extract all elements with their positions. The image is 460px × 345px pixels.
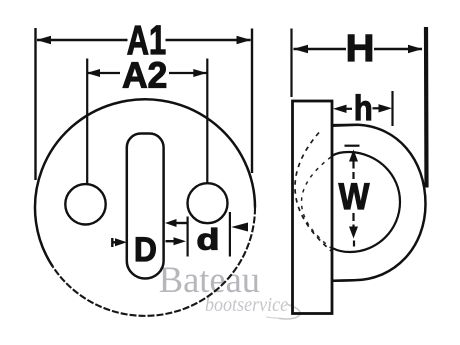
D right arrow (tip at slot right edge, tail to d ext line) (175, 222, 188, 224)
plate front view: outer circle bottom arc (scan-dashed) (53, 208, 255, 316)
left hole (65, 184, 105, 224)
svg-text:H: H (346, 28, 375, 70)
A1 right arrow (237, 36, 252, 45)
H left extension line (290, 29, 292, 98)
W dimension stem lower (dash) (352, 213, 354, 227)
A1 left arrow (37, 36, 52, 45)
eye inner circle arc (333, 152, 401, 252)
D left arrow (112, 241, 116, 243)
svg-text:D: D (134, 230, 157, 268)
slot (stadium) (127, 134, 164, 279)
H right extension line (424, 27, 429, 188)
A2 right extension line (206, 59, 208, 184)
d right extension line (229, 212, 231, 257)
hidden outer ring arc (dashed, behind plate) (295, 133, 333, 253)
H right arrow (408, 45, 423, 54)
W top arrow (pointing up) (349, 150, 358, 162)
A2 dimension line (87, 72, 120, 74)
A1 right extension line (251, 29, 253, 174)
rod top edge line (plate to ring) (331, 124, 358, 126)
H left arrow (293, 45, 308, 54)
rod bottom edge line (plate to ring) (331, 279, 354, 282)
watermark swoosh (278, 305, 300, 319)
svg-text:h: h (354, 88, 373, 127)
svg-text:W: W (339, 176, 371, 218)
h left arrow (tip at plate edge) (345, 108, 352, 110)
side view plate rectangle (293, 101, 333, 314)
d right arrow (outside, pointing left) (231, 223, 248, 232)
h right arrow (tip at ext line) (373, 107, 380, 109)
watermark swoosh tail (266, 317, 279, 318)
W top tick (345, 145, 360, 147)
A2 right arrow (193, 69, 207, 77)
right hole (188, 183, 228, 223)
H dimension line (294, 48, 347, 50)
hidden inner ring arc (dashed, behind plate) (302, 157, 332, 248)
W bottom arrow (pointing down) (349, 227, 358, 239)
A1 left extension line (34, 28, 36, 180)
A2 left extension line (86, 59, 88, 185)
A1 dimension line (37, 39, 128, 41)
svg-text:bootservice: bootservice (205, 294, 289, 316)
eye outer ring outline (332, 125, 426, 281)
h right extension line (391, 91, 393, 126)
D left arrow tick (111, 238, 113, 247)
d left extension line (187, 217, 189, 257)
A2 left arrow (87, 69, 101, 77)
svg-text:d: d (197, 223, 220, 257)
d left arrow (outside, pointing right) (166, 240, 175, 242)
W dimension stem upper (dash-dot) (352, 162, 354, 180)
W bottom dash to inner circle (353, 241, 355, 247)
svg-text:A2: A2 (122, 55, 167, 95)
plate front view: outer circle top arc (35, 99, 255, 266)
